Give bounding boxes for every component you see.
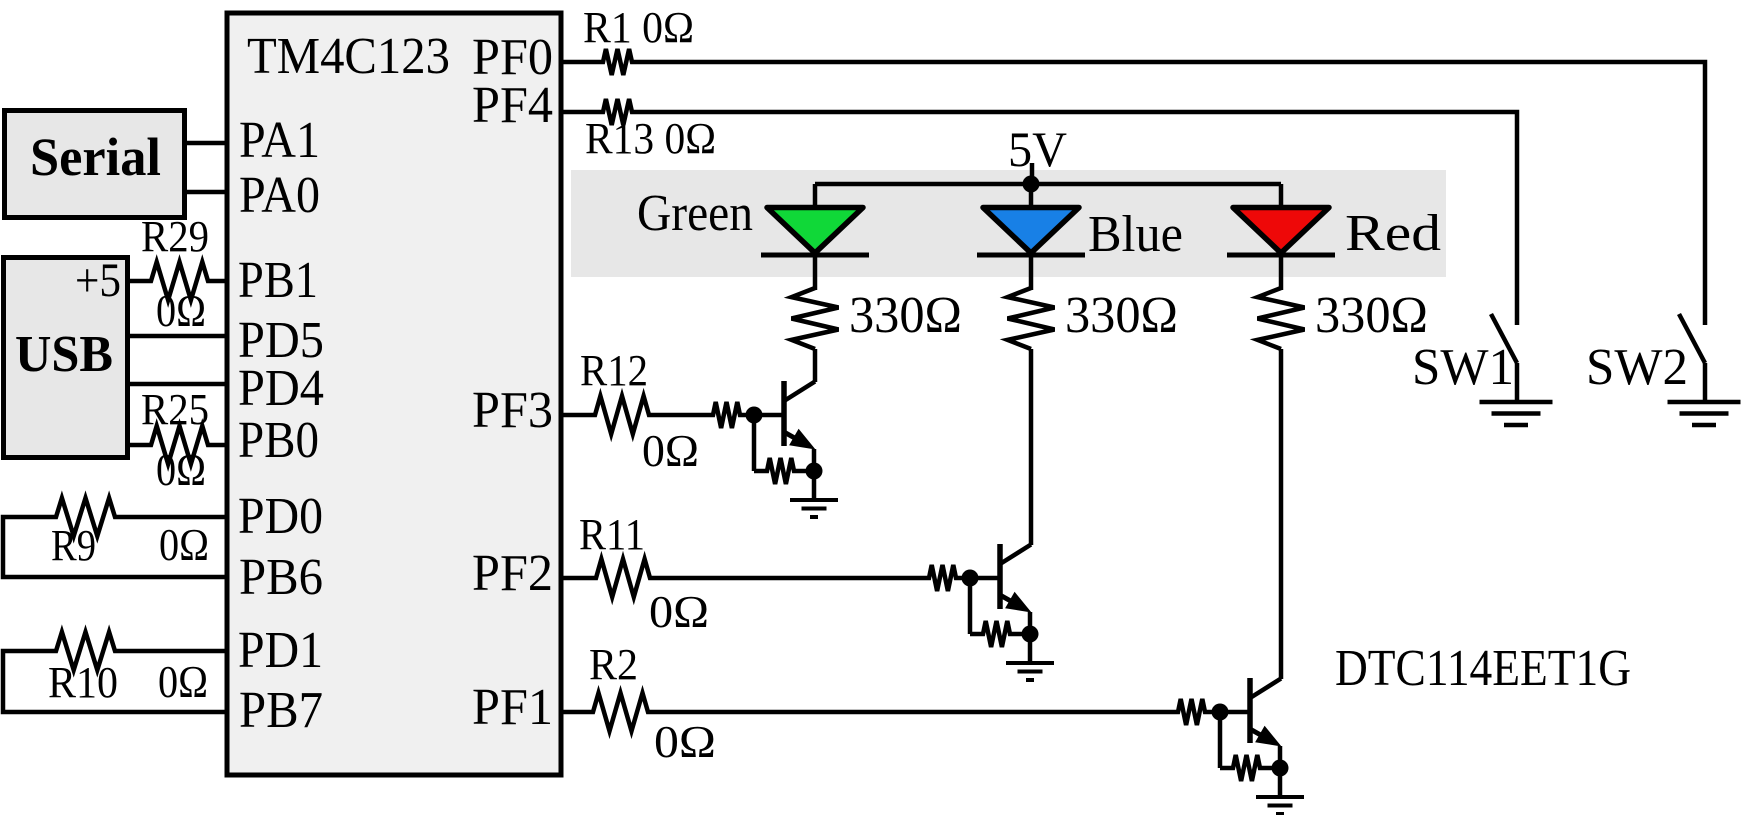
- resistor R12 0ohm wire PF3 to Q1: [562, 396, 783, 434]
- svg-text:USB: USB: [15, 326, 113, 383]
- transistor Q1 collector diagonal: [784, 382, 815, 402]
- wire emitter to ground (Q2): [1028, 612, 1033, 663]
- LED green anode triangle: [767, 208, 863, 254]
- wire PA1: [187, 141, 225, 146]
- junction node emitter (Q1): [806, 463, 823, 480]
- ground (Q1): [790, 498, 838, 502]
- transistor Q2 collector diagonal: [1000, 545, 1031, 565]
- ground SW2: [1668, 400, 1741, 405]
- LED red anode triangle: [1233, 208, 1329, 254]
- transistor Q2 emitter diagonal: [1000, 595, 1024, 609]
- svg-text:330Ω: 330Ω: [849, 287, 962, 344]
- svg-text:PB7: PB7: [239, 682, 323, 739]
- svg-text:R29: R29: [141, 212, 209, 261]
- LED blue anode triangle: [983, 208, 1079, 254]
- connector USB: [4, 258, 128, 458]
- wire base resistor down (Q1): [752, 415, 757, 471]
- svg-text:PB6: PB6: [239, 549, 323, 606]
- svg-text:Red: Red: [1345, 205, 1441, 262]
- wire collector (Q2): [1029, 349, 1034, 545]
- wire PD5: [128, 334, 225, 339]
- svg-text:PA0: PA0: [239, 167, 320, 224]
- wire 5V to green LED anode: [813, 184, 818, 210]
- LED blue cathode bar: [977, 253, 1085, 258]
- svg-text:0Ω: 0Ω: [654, 716, 716, 767]
- svg-text:SW2: SW2: [1586, 339, 1688, 396]
- junction node emitter (Q3): [1272, 760, 1289, 777]
- svg-text:R9: R9: [51, 521, 96, 570]
- junction node emitter (Q2): [1022, 626, 1039, 643]
- wire 5V stub: [1030, 163, 1035, 184]
- svg-text:5V: 5V: [1008, 121, 1067, 177]
- svg-text:R11: R11: [579, 510, 645, 559]
- wire base resistor down (Q3): [1218, 712, 1223, 768]
- junction node base (Q3): [1212, 704, 1229, 721]
- LED green cathode bar: [761, 253, 869, 258]
- LED red cathode bar: [1227, 253, 1335, 258]
- wire collector (Q3): [1279, 349, 1284, 679]
- wire 5V to red LED anode: [1279, 184, 1284, 210]
- svg-text:R10: R10: [48, 658, 118, 707]
- svg-text:PF1: PF1: [472, 679, 553, 736]
- svg-text:R13 0Ω: R13 0Ω: [585, 114, 716, 163]
- svg-text:330Ω: 330Ω: [1065, 287, 1178, 344]
- svg-text:Blue: Blue: [1088, 206, 1183, 263]
- resistor 330ohm (blue): [1008, 288, 1055, 349]
- svg-text:0Ω: 0Ω: [158, 656, 208, 707]
- transistor Q1 emitter arrowhead: [789, 429, 815, 450]
- transistor Q1 base bar: [781, 381, 787, 446]
- MCU U1 TM4C123: [227, 13, 561, 775]
- resistor R25 0ohm (USB to PB0): [128, 426, 225, 464]
- transistor Q2 base bar: [997, 544, 1003, 609]
- connector Serial: [5, 111, 185, 218]
- switch SW2 lever: [1679, 314, 1705, 363]
- svg-text:PA1: PA1: [239, 112, 320, 169]
- svg-text:Green: Green: [637, 185, 753, 242]
- junction node 5V: [1023, 176, 1040, 193]
- resistor R29 0ohm (USB +5 to PB1): [128, 262, 225, 300]
- wire red LED cathode to resistor: [1279, 255, 1284, 291]
- svg-text:R12: R12: [580, 346, 648, 395]
- wire base resistor down (Q2): [968, 578, 973, 634]
- ground SW1: [1480, 400, 1553, 405]
- transistor Q3 collector diagonal: [1250, 679, 1281, 699]
- resistor R13 0ohm and wire PF4 to SW1: [562, 99, 1517, 325]
- transistor Q2 emitter arrowhead: [1005, 592, 1031, 613]
- gray LED highlight band: [571, 170, 1446, 277]
- wire collector (Q1): [813, 349, 818, 382]
- resistor R9 0ohm loop (PD0 to PB6): [3, 498, 225, 577]
- svg-text:R2: R2: [589, 640, 638, 689]
- svg-text:SW1: SW1: [1412, 339, 1514, 396]
- svg-text:TM4C123: TM4C123: [247, 28, 450, 85]
- svg-text:330Ω: 330Ω: [1315, 287, 1428, 344]
- resistor 330ohm (red): [1258, 288, 1305, 349]
- wire SW1 to ground: [1515, 363, 1520, 402]
- svg-text:PD1: PD1: [238, 622, 323, 679]
- svg-text:PF3: PF3: [472, 382, 553, 439]
- svg-text:PF4: PF4: [472, 77, 553, 134]
- wire PD4: [128, 382, 225, 387]
- resistor base-emitter (Q2): [970, 621, 1030, 647]
- resistor R11 0ohm wire PF2 to Q2: [562, 559, 999, 597]
- resistor base-emitter (Q3): [1220, 755, 1280, 781]
- junction node base (Q1): [746, 407, 763, 424]
- wire emitter to ground (Q1): [812, 449, 817, 500]
- resistor base-emitter (Q1): [754, 458, 814, 484]
- transistor Q3 base bar: [1247, 678, 1253, 743]
- junction node base (Q2): [962, 570, 979, 587]
- transistor Q3 emitter arrowhead: [1255, 726, 1281, 747]
- resistor R2 0ohm wire PF1 to Q3: [562, 693, 1249, 731]
- ground (Q2): [1006, 661, 1054, 665]
- svg-text:PB0: PB0: [238, 412, 319, 469]
- svg-text:+5: +5: [75, 254, 121, 307]
- svg-text:PF2: PF2: [472, 545, 553, 602]
- wire blue LED cathode to resistor: [1029, 255, 1034, 291]
- wire 5V rail: [815, 182, 1281, 187]
- wire green LED cathode to resistor: [813, 255, 818, 291]
- svg-text:PB1: PB1: [238, 252, 318, 309]
- svg-text:Serial: Serial: [30, 127, 161, 187]
- svg-text:0Ω: 0Ω: [156, 285, 206, 336]
- wire emitter to ground (Q3): [1278, 746, 1283, 797]
- transistor Q1 emitter diagonal: [784, 432, 808, 446]
- wire PA0: [187, 190, 225, 195]
- resistor R1 0ohm and wire PF0 to SW2: [562, 49, 1705, 325]
- switch SW1 lever: [1491, 314, 1517, 363]
- resistor 330ohm (green): [792, 288, 839, 349]
- svg-text:0Ω: 0Ω: [156, 444, 206, 495]
- svg-text:0Ω: 0Ω: [159, 519, 209, 570]
- wire 5V to blue LED anode: [1029, 184, 1034, 210]
- wire SW2 to ground: [1703, 363, 1708, 402]
- svg-text:DTC114EET1G: DTC114EET1G: [1335, 640, 1631, 697]
- svg-text:PD4: PD4: [238, 360, 324, 417]
- resistor R10 0ohm loop (PD1 to PB7): [3, 632, 225, 712]
- svg-text:R25: R25: [141, 385, 209, 434]
- svg-text:R1 0Ω: R1 0Ω: [583, 3, 694, 52]
- svg-text:0Ω: 0Ω: [642, 425, 699, 476]
- svg-text:0Ω: 0Ω: [649, 586, 709, 637]
- transistor Q3 emitter diagonal: [1250, 729, 1274, 743]
- svg-text:PD0: PD0: [238, 488, 323, 545]
- ground (Q3): [1256, 795, 1304, 799]
